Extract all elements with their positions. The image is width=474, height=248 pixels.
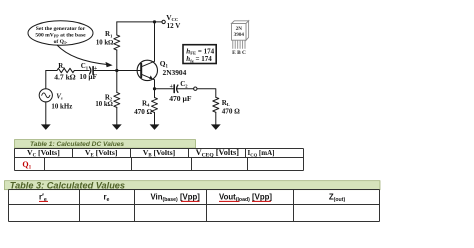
Table 3 headers xyxy=(39,193,345,203)
svg-text:C: C xyxy=(242,50,246,56)
label C1 xyxy=(79,62,98,81)
2N3904 package drawing xyxy=(232,21,249,56)
wire base node to R2 xyxy=(116,71,118,93)
svg-text:VE [Volts]: VE [Volts] xyxy=(85,148,118,158)
wire collector vertical xyxy=(154,22,156,61)
svg-text:VB [Volts]: VB [Volts] xyxy=(143,148,176,158)
svg-text:12 V: 12 V xyxy=(167,22,181,30)
svg-text:Set the generator for: Set the generator for xyxy=(36,26,86,32)
label R2 xyxy=(95,93,113,108)
Table 3 caption bar xyxy=(5,180,381,190)
Table 3 grid xyxy=(9,190,380,222)
svg-text:10 kHz: 10 kHz xyxy=(51,104,72,111)
wire output to RL xyxy=(197,89,216,98)
svg-text:470 Ω: 470 Ω xyxy=(134,108,153,116)
svg-text:+: + xyxy=(94,66,98,72)
svg-text:hfe = 174: hfe = 174 xyxy=(186,55,212,63)
svg-text:470 Ω: 470 Ω xyxy=(222,107,241,115)
svg-text:Table 3: Calculated Values: Table 3: Calculated Values xyxy=(10,180,125,190)
resistor R1 xyxy=(114,35,120,50)
ground R2 xyxy=(112,124,122,129)
net Vcc label xyxy=(166,13,180,30)
label Rs xyxy=(54,63,76,82)
svg-text:500 mVPP at the base: 500 mVPP at the base xyxy=(35,32,86,38)
wire RE to ground xyxy=(154,113,156,125)
node emitter junction xyxy=(153,87,156,90)
wire emitter vertical xyxy=(154,80,156,89)
label RE xyxy=(134,100,153,117)
callout tail arrow xyxy=(57,45,108,65)
label R1 xyxy=(96,30,114,46)
capacitor C1 xyxy=(90,67,94,75)
wire R2 to ground xyxy=(116,107,118,124)
label Vs xyxy=(51,92,72,110)
resistor R2 xyxy=(114,92,120,107)
svg-text:E: E xyxy=(232,50,236,56)
wire R1 top xyxy=(116,22,118,35)
resistor RE xyxy=(152,98,158,113)
Table 1 grid xyxy=(15,149,304,171)
svg-text:B: B xyxy=(237,50,241,56)
wire source to Rs xyxy=(46,70,57,72)
wire emitter node to C2 xyxy=(155,88,174,90)
wire Rs to C1 xyxy=(74,70,89,72)
ground source xyxy=(41,124,51,129)
svg-text:2N3904: 2N3904 xyxy=(163,68,187,77)
capacitor C2 xyxy=(174,85,178,93)
Table 1 headers xyxy=(27,148,275,158)
callout bubble xyxy=(28,21,113,68)
Table 1 caption bar xyxy=(15,140,196,149)
wire RL to ground xyxy=(215,112,217,124)
resistor Rs xyxy=(57,68,74,72)
resistor RL xyxy=(213,97,219,112)
svg-text:+: + xyxy=(170,84,174,90)
wire source top xyxy=(45,71,47,89)
wire C2 to output terminal xyxy=(178,88,194,90)
source Vs xyxy=(39,89,52,102)
svg-text:10 kΩ: 10 kΩ xyxy=(96,40,114,47)
terminal Vcc circle xyxy=(162,20,165,23)
svg-text:3904: 3904 xyxy=(234,32,245,38)
node base junction xyxy=(115,69,118,72)
svg-text:4.7 kΩ: 4.7 kΩ xyxy=(54,73,76,82)
label Q1 xyxy=(160,59,187,77)
svg-text:10 kΩ: 10 kΩ xyxy=(95,101,113,108)
wire emitter node to RE xyxy=(154,89,156,98)
wire C1 to base node xyxy=(93,70,117,72)
wire top rail xyxy=(117,21,162,23)
svg-text:of Q1.: of Q1. xyxy=(54,39,68,45)
hFE value box xyxy=(183,45,216,64)
svg-text:470 µF: 470 µF xyxy=(169,94,192,103)
node output terminal xyxy=(194,87,197,90)
label C2 xyxy=(169,80,192,103)
ground RL xyxy=(211,124,221,129)
wire base xyxy=(117,70,140,72)
wire source to ground xyxy=(45,102,47,125)
ground RE xyxy=(150,124,160,129)
transistor Q1 body xyxy=(137,60,157,80)
label RL xyxy=(222,99,241,116)
svg-text:10 µF: 10 µF xyxy=(79,73,97,81)
svg-text:VC [Volts]: VC [Volts] xyxy=(27,148,60,158)
svg-text:Table 1: Calculated DC Values: Table 1: Calculated DC Values xyxy=(30,141,124,148)
wire R1 bottom to base node xyxy=(116,50,118,71)
node junction top rail xyxy=(153,20,156,23)
